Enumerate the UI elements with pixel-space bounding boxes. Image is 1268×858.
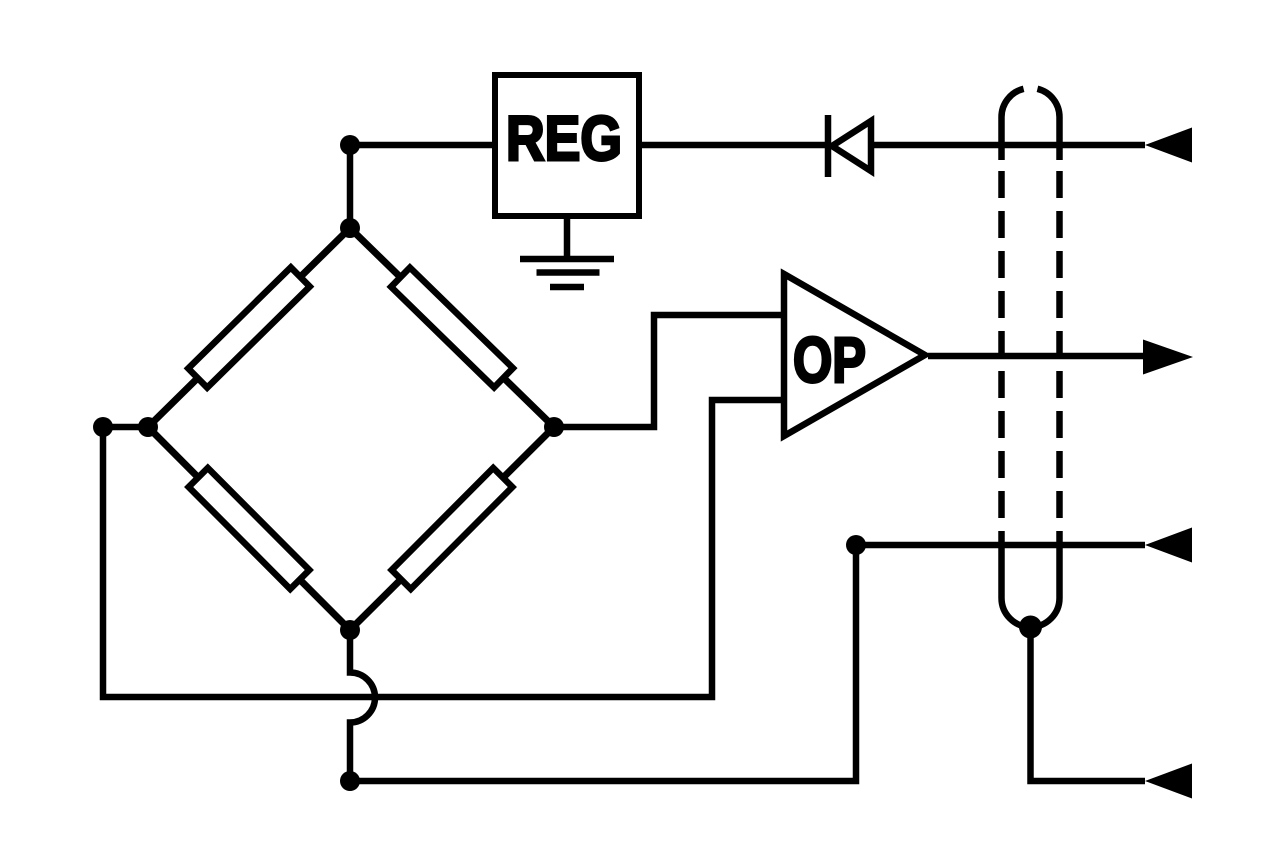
diode D1 triangle (832, 121, 871, 171)
cable shield right solid bottom (1056, 547, 1063, 598)
wire REG output to diode cathode (639, 142, 828, 149)
node sense junction dot (846, 535, 866, 555)
svg-text:REG: REG (506, 104, 622, 174)
connector arrow 1 input (1145, 128, 1192, 163)
node bridge top vertex dot (340, 218, 360, 238)
cable shield left solid bottom (998, 547, 1005, 598)
regulator U1 box REG (495, 75, 639, 216)
cable shield right dashed line (1056, 117, 1063, 160)
ground bar 2 (537, 269, 600, 276)
wire supply top: junction to REG input (350, 142, 495, 149)
bridge arm top-left wire (148, 228, 350, 427)
ground stem from REG (564, 216, 571, 259)
wire bottom output horizontal up to sense junction (350, 545, 856, 781)
node left stub dot (93, 417, 113, 437)
node bridge bottom vertex dot (340, 620, 360, 640)
node bridge left vertex dot (138, 417, 158, 437)
wire diode anode to connector arrow 1 (871, 142, 1145, 149)
wire op-amp output to connector arrow 2 (928, 353, 1143, 360)
connector arrow 3 input (1145, 528, 1192, 563)
cable shield top arc dashed (1002, 88, 1060, 117)
bridge arm bottom-left wire (148, 427, 350, 630)
resistor R1 top-left (188, 267, 310, 387)
bridge arm top-right wire (350, 228, 554, 427)
cable shield bottom arc (1002, 598, 1060, 627)
wire left node down, bottom horizontal, up to op-amp lower input (103, 400, 784, 697)
node junction dot top supply (340, 135, 360, 155)
wire shield drain down and to connector arrow 4 (1031, 627, 1146, 781)
ground bar 1 (520, 256, 614, 263)
svg-text:OP: OP (793, 324, 866, 396)
node bridge right vertex dot (544, 417, 564, 437)
ground bar 3 (550, 284, 584, 291)
wire sense line to connector arrow 3 (856, 542, 1145, 549)
node shield drain dot (1019, 616, 1042, 639)
connector arrow 2 output (1143, 340, 1193, 375)
node bottom corner dot (340, 771, 360, 791)
resistor R2 top-right (391, 268, 513, 388)
connector arrow 4 input (1145, 764, 1192, 799)
wire bridge bottom with crossover hop (350, 630, 375, 781)
cable shield left dashed line (998, 117, 1005, 160)
op-amp U2 triangle (784, 274, 925, 436)
resistor R4 bottom-right (392, 468, 513, 589)
diode D1 cathode bar (825, 115, 832, 177)
wire junction down to bridge top (347, 145, 354, 228)
wire bridge right vertex to op-amp upper input (554, 315, 784, 427)
bridge arm bottom-right wire (350, 427, 554, 630)
wire left node stub (103, 424, 148, 431)
resistor R3 bottom-left (189, 468, 310, 589)
